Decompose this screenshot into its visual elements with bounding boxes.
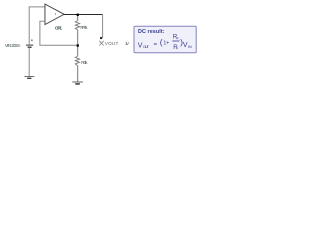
svg-text:I: I — [177, 47, 178, 51]
svg-text:(: ( — [160, 37, 163, 47]
svg-text:RF 9k: RF 9k — [80, 25, 88, 30]
svg-text:OP1: OP1 — [55, 25, 63, 30]
svg-text:IN: IN — [188, 45, 192, 49]
svg-text:DC result:: DC result: — [138, 29, 165, 35]
svg-text:RI 1k: RI 1k — [81, 60, 88, 65]
svg-text:OUT: OUT — [143, 45, 150, 49]
svg-text:VIN 100m: VIN 100m — [5, 43, 21, 48]
svg-text:1+: 1+ — [163, 41, 169, 47]
svg-text:F: F — [177, 36, 179, 40]
svg-text:VOUT: VOUT — [105, 41, 119, 46]
